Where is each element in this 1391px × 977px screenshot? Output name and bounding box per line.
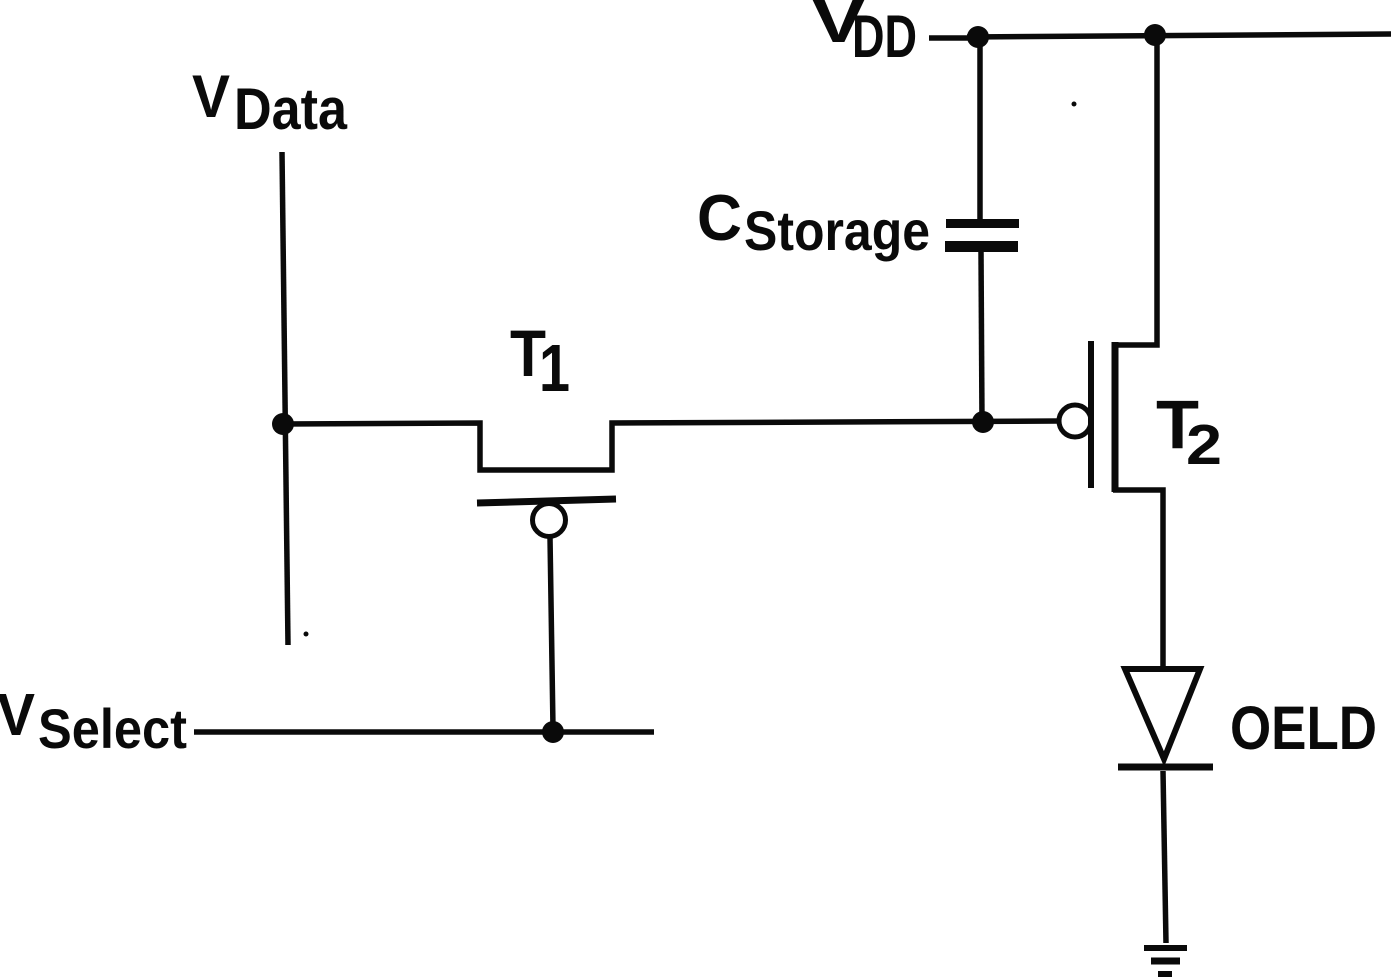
svg-text:OELD: OELD bbox=[1230, 694, 1377, 762]
svg-text:C: C bbox=[697, 181, 742, 254]
svg-text:Select: Select bbox=[38, 697, 187, 760]
svg-text:1: 1 bbox=[539, 331, 570, 406]
svg-text:2: 2 bbox=[1186, 413, 1222, 477]
svg-text:V: V bbox=[0, 682, 35, 748]
svg-text:V: V bbox=[192, 63, 230, 130]
svg-text:DD: DD bbox=[852, 3, 917, 70]
svg-text:Storage: Storage bbox=[744, 199, 930, 262]
svg-text:Data: Data bbox=[234, 77, 348, 142]
